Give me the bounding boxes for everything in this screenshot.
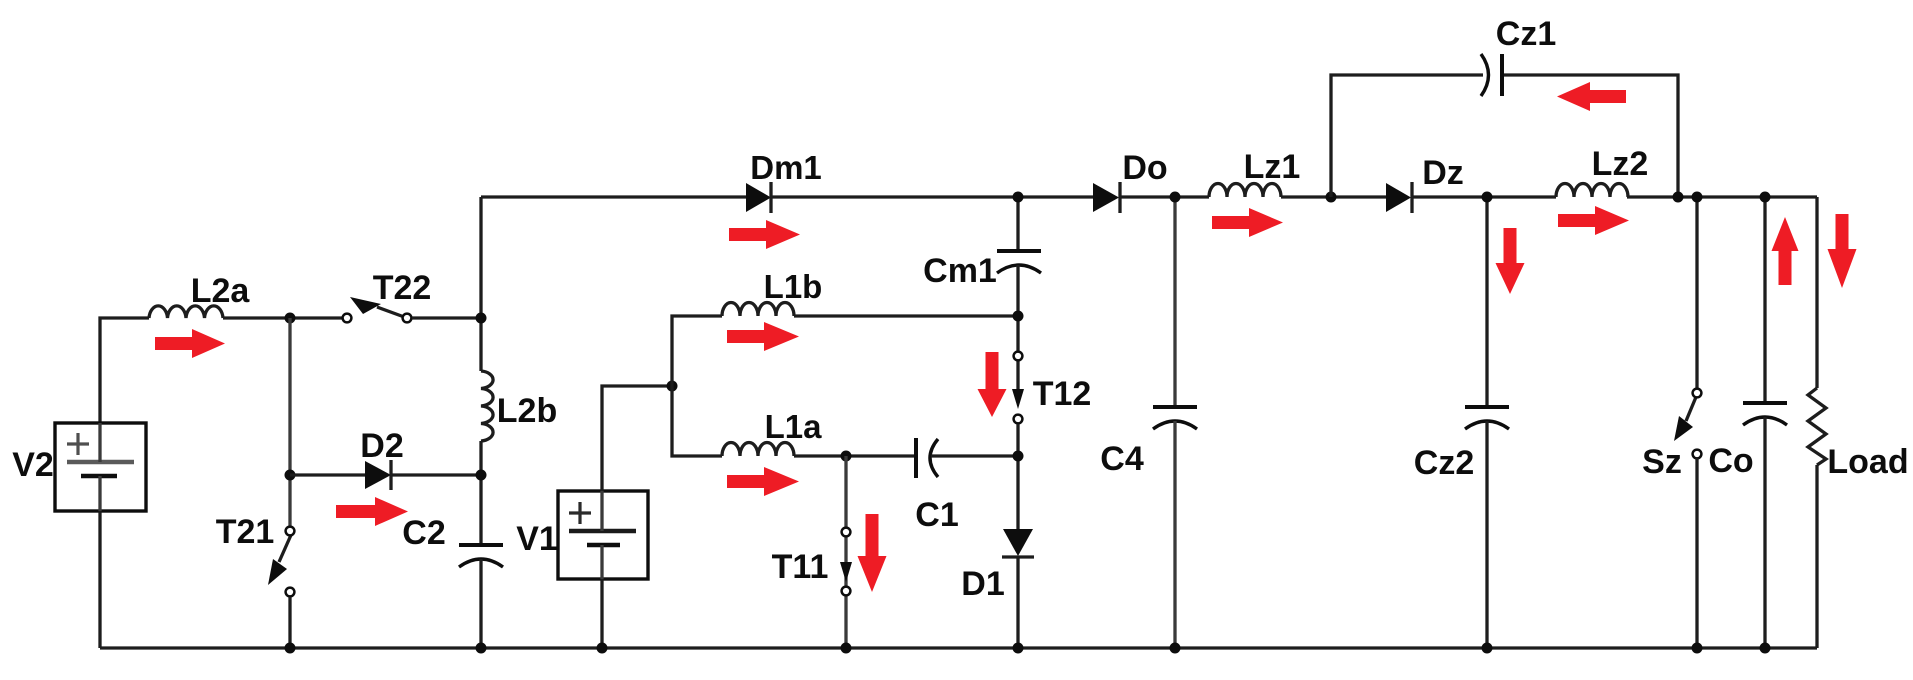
svg-text:Lz1: Lz1 <box>1244 148 1301 186</box>
svg-text:Sz: Sz <box>1642 443 1682 481</box>
svg-text:T21: T21 <box>216 513 275 551</box>
node junction T22/vertical <box>476 313 487 324</box>
node junction Co top <box>1760 192 1771 203</box>
current arrow T12 <box>978 352 1007 417</box>
node junction Dm1 top rail <box>1013 192 1024 203</box>
wire node to T21 <box>288 318 291 527</box>
wire V2 bottom to rail <box>98 511 101 648</box>
wire L1b to Cm1 node <box>794 314 1018 317</box>
wire C2 to rail <box>479 559 482 648</box>
svg-text:C4: C4 <box>1100 440 1144 478</box>
svg-text:L1a: L1a <box>765 408 823 445</box>
current arrow Dm1 <box>729 220 800 249</box>
wire T21 to rail <box>288 597 291 648</box>
inductor L1a <box>722 443 794 457</box>
svg-text:V2: V2 <box>12 446 54 484</box>
inductor L2a <box>149 306 223 318</box>
wire L1a to C1 <box>794 454 916 457</box>
wire Cz2 to rail <box>1485 421 1488 648</box>
wire Cz1 loop right riser <box>1504 75 1678 197</box>
current arrow Lz2 <box>1558 206 1629 235</box>
node junction V1/L1 <box>667 381 678 392</box>
node junction L1a/T11 <box>841 451 852 462</box>
inductor L2b <box>481 371 493 441</box>
current arrow Co up <box>1772 217 1799 285</box>
wire T11 branch <box>844 456 847 648</box>
svg-text:Cz2: Cz2 <box>1414 444 1474 482</box>
wire Cz2 branch <box>1485 197 1488 407</box>
svg-text:Lz2: Lz2 <box>1592 145 1649 183</box>
voltage source V2 <box>55 423 146 511</box>
node junction C4 top <box>1170 192 1181 203</box>
current arrow Lz1 <box>1212 208 1283 237</box>
wire V2 top to L2a <box>100 318 149 424</box>
wire Cm1 to L1b node <box>1016 265 1019 351</box>
svg-text:Dz: Dz <box>1422 154 1464 192</box>
current arrow Load down <box>1828 214 1857 288</box>
wire Sz branch <box>1695 197 1698 388</box>
switch T21 <box>268 527 294 597</box>
wire C4 branch <box>1173 197 1176 407</box>
current arrow T11 <box>858 514 887 592</box>
svg-text:T11: T11 <box>772 548 829 586</box>
svg-text:D2: D2 <box>360 427 403 465</box>
node junction Co rail <box>1760 643 1771 654</box>
capacitor C4 <box>1153 407 1197 429</box>
wire C1 to T12 node <box>931 454 1018 457</box>
svg-text:Dm1: Dm1 <box>750 149 822 186</box>
wire Cm1 vertical <box>1016 197 1019 251</box>
svg-text:C1: C1 <box>915 496 958 534</box>
wire Load branch <box>1815 197 1818 388</box>
svg-text:Cm1: Cm1 <box>923 252 997 290</box>
current arrow L1b <box>727 322 799 351</box>
diode Dz <box>1386 182 1412 213</box>
node junction Cz2 top <box>1482 192 1493 203</box>
svg-text:Co: Co <box>1708 442 1753 480</box>
bottom rail wire <box>100 646 1817 649</box>
wire main left vertical top <box>479 197 482 371</box>
svg-text:V1: V1 <box>516 520 558 558</box>
inductor L1b <box>722 303 794 317</box>
diode D2 <box>365 460 391 490</box>
wire V1 bottom to rail <box>600 579 603 648</box>
node junction Cz1 right <box>1673 192 1684 203</box>
inductor Lz1 <box>1209 184 1281 198</box>
node junction D2 right <box>476 470 487 481</box>
svg-text:L1b: L1b <box>764 268 823 305</box>
inductor Lz2 <box>1556 184 1628 198</box>
wire Load to rail <box>1815 465 1818 648</box>
capacitor Cm1 <box>997 251 1041 273</box>
capacitor Cz1 <box>1481 54 1502 96</box>
capacitor C2 <box>459 545 503 567</box>
wire Co to rail <box>1763 417 1766 648</box>
svg-text:L2a: L2a <box>191 272 251 310</box>
switch T22 <box>343 297 412 322</box>
wire to L1b <box>672 316 722 386</box>
switch Sz <box>1674 389 1701 459</box>
svg-text:T12: T12 <box>1033 375 1092 413</box>
svg-text:L2b: L2b <box>497 392 557 430</box>
node junction Sz rail <box>1692 643 1703 654</box>
node junction T21 rail <box>285 643 296 654</box>
top rail wire <box>481 195 1817 198</box>
svg-text:Cz1: Cz1 <box>1496 15 1556 53</box>
current arrow Cz2 <box>1496 228 1525 294</box>
wire D2 branch <box>290 473 481 476</box>
wire T12 to C1 node <box>1016 424 1019 529</box>
node junction L2a/T21 branch <box>285 313 296 324</box>
wire D1 to rail <box>1016 557 1019 648</box>
wire Co branch <box>1763 197 1766 403</box>
node junction D2 left <box>285 470 296 481</box>
diode Do <box>1093 182 1120 213</box>
node junction T11 rail <box>841 643 852 654</box>
wire Cz1 loop left riser <box>1331 75 1483 197</box>
wire Sz to rail <box>1695 458 1698 648</box>
diode D1 <box>1002 529 1034 557</box>
node junction C4 rail <box>1170 643 1181 654</box>
voltage source V1 <box>558 491 648 579</box>
node junction Sz top <box>1692 192 1703 203</box>
resistor Load <box>1808 388 1826 465</box>
svg-text:T22: T22 <box>373 269 432 307</box>
node junction L1b right <box>1013 311 1024 322</box>
switch T11 <box>840 528 852 596</box>
diode Dm1 <box>746 182 771 213</box>
svg-text:C2: C2 <box>402 514 445 552</box>
capacitor Co <box>1743 403 1787 425</box>
current arrow D2 <box>336 497 408 526</box>
wire L2a to T22 <box>223 316 342 319</box>
svg-text:Do: Do <box>1122 149 1167 187</box>
wire to L1a <box>672 386 722 456</box>
node junction D1 rail <box>1013 643 1024 654</box>
current arrow L2a <box>155 329 225 358</box>
current arrow L1a <box>727 467 799 496</box>
svg-text:D1: D1 <box>961 565 1004 603</box>
node junction C2 rail <box>476 643 487 654</box>
node junction V1 rail <box>597 643 608 654</box>
wire L2b to C2 <box>479 441 482 545</box>
node junction C1 right <box>1013 451 1024 462</box>
capacitor C1 <box>916 438 938 478</box>
svg-text:Load: Load <box>1827 443 1908 481</box>
wire C4 to rail <box>1173 421 1176 648</box>
switch T12 <box>1012 352 1024 424</box>
wire V1 top to junction <box>602 386 672 491</box>
node junction Cz2 rail <box>1482 643 1493 654</box>
wire T22 to L2b node <box>412 316 481 319</box>
capacitor Cz2 <box>1465 407 1509 429</box>
node junction Cz1 left <box>1326 192 1337 203</box>
current arrow Cz1 <box>1557 82 1626 111</box>
